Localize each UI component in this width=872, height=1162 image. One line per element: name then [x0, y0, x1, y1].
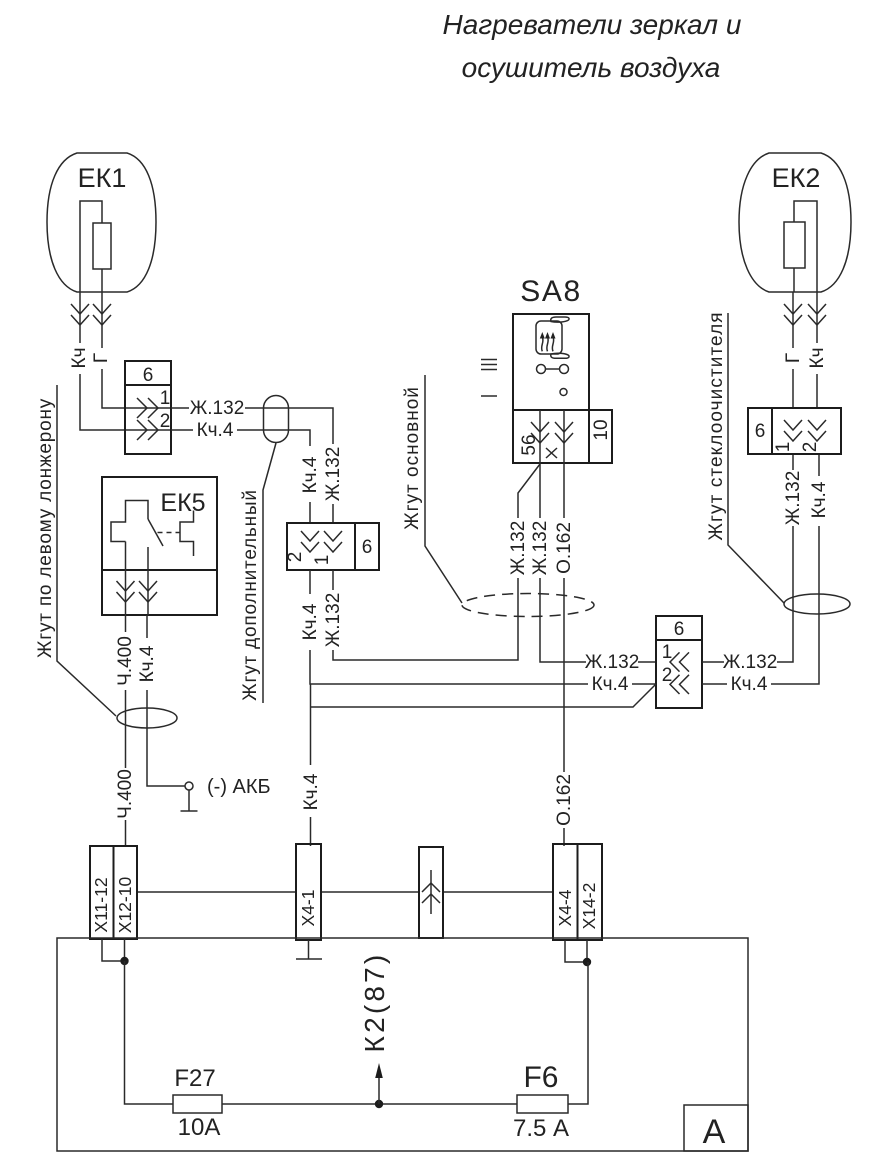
EK5 left pin wire	[125, 542, 127, 616]
wire label Кч.4 vertical (EK2 side)	[811, 476, 828, 526]
svg-text:Кч.4: Кч.4	[197, 420, 234, 441]
svg-text:осушитель воздуха: осушитель воздуха	[462, 52, 721, 83]
svg-text:56: 56	[519, 434, 540, 455]
svg-text:Ж.132: Ж.132	[783, 471, 804, 526]
SA8 pin X wire with chevrons	[563, 410, 565, 463]
wire label О.162	[556, 518, 573, 578]
svg-text:Ж.132: Ж.132	[190, 398, 245, 419]
pin chevrons on EK5 right wire	[139, 581, 157, 602]
pin 1 chevrons (left)	[670, 652, 689, 671]
svg-text:Ж.132: Ж.132	[508, 521, 529, 576]
title: Нагреватели зеркал и осушитель воздуха	[443, 9, 742, 83]
ground stub under X4-1	[296, 940, 322, 959]
wire: EK1 element bottom lead	[101, 269, 103, 292]
wire F6 up to junction	[568, 962, 588, 1104]
connector divider	[354, 523, 356, 570]
pin chevrons on EK5 left wire	[117, 581, 135, 602]
svg-text:Х14-2: Х14-2	[579, 883, 599, 930]
svg-text:6: 6	[674, 619, 685, 640]
svg-text:F6: F6	[523, 1061, 558, 1094]
svg-text:1: 1	[662, 642, 673, 663]
bracket X4-4/X14-2 to junction	[565, 940, 587, 962]
branch wire from pin 2 down to frame	[311, 684, 657, 846]
svg-text:Кч.4: Кч.4	[731, 674, 768, 695]
connector cell divider	[125, 384, 171, 386]
wire label Ч.400	[117, 632, 134, 690]
wire Кч.4 from EK5 to battery minus	[147, 615, 185, 786]
wire: EK2 element bottom lead	[793, 268, 795, 292]
wire label Кч.4 near X4-1	[303, 765, 320, 817]
wire Ж.132 from SA8 pin down to EK2 branch	[540, 464, 656, 662]
junction dot right	[583, 958, 591, 966]
wire: EK1 right lead down	[102, 292, 171, 408]
pin chevrons on EK2 wire 793	[784, 420, 802, 441]
heating element R of EK2	[784, 222, 805, 268]
heat wave arrows	[542, 337, 554, 351]
pin chevrons on wire 333	[324, 531, 342, 552]
svg-text:10А: 10А	[178, 1114, 221, 1141]
air dryer heater EK5 body	[102, 477, 217, 615]
splice chevrons on EK2 left wire	[784, 304, 802, 325]
position I mark	[481, 395, 497, 397]
intermediate connector (6 pin) to wiper harness	[656, 616, 702, 708]
pin chevrons on wire 310	[301, 531, 319, 552]
wire label Ж.132 on horizontal run	[586, 652, 638, 671]
splice chevrons on EK1 left wire	[71, 304, 89, 325]
svg-text:(-) АКБ: (-) АКБ	[207, 776, 271, 798]
wire colour label Ж.132 (above middle connector)	[325, 444, 342, 504]
svg-text:2: 2	[285, 552, 306, 563]
heater element symbol	[111, 501, 148, 542]
svg-text:Ч.400: Ч.400	[115, 636, 136, 686]
frame bus wire	[137, 891, 553, 893]
main harness dashed oval	[462, 594, 594, 617]
splice chevrons on EK2 right wire	[808, 304, 826, 325]
pin 2 chevrons	[137, 420, 158, 440]
svg-text:ЕК2: ЕК2	[772, 163, 821, 193]
wire colour label Кч.4 (above middle connector)	[302, 446, 319, 502]
svg-text:1: 1	[160, 388, 171, 409]
wire label Ч.400 (second)	[117, 768, 134, 820]
svg-text:Ж.132: Ж.132	[585, 652, 640, 673]
junction dot left	[120, 957, 128, 965]
connector of SA8 (10 pin)	[513, 410, 612, 463]
svg-text:Кч: Кч	[69, 348, 90, 369]
wire label Кч.4	[139, 638, 156, 690]
svg-text:Жгут основной: Жгут основной	[402, 386, 423, 530]
wire Ж.132 down from middle connector to SA8 branch	[333, 464, 540, 660]
label Кч.4 on horizontal run to connector pin 2	[588, 674, 632, 693]
mirror housing bracket bottom	[551, 353, 569, 358]
connector X (6 pin) of EK2	[748, 408, 841, 454]
wire down to F27	[125, 961, 174, 1104]
wire label Ж.132	[189, 398, 245, 417]
svg-text:2: 2	[160, 411, 171, 432]
thermal link dashed	[158, 532, 181, 534]
wire: EK2 element top to right lead	[794, 201, 817, 292]
bus junction connector with chevrons	[419, 847, 443, 938]
battery minus terminal	[185, 782, 193, 790]
svg-text:Жгут по левому лонжерону: Жгут по левому лонжерону	[35, 398, 56, 658]
connector divider	[656, 639, 702, 641]
wire label Ж.132 (left SA8 wire)	[510, 518, 527, 578]
wire: EK2 left lead down to connector	[792, 292, 794, 408]
svg-text:Ж.132: Ж.132	[723, 652, 778, 673]
thermostat contour	[180, 511, 194, 557]
heated mirror icon frame	[536, 321, 562, 354]
wire Кч.4 from EK1 pin 2	[171, 430, 310, 523]
leader line to Жгут стеклоочистителя	[728, 313, 784, 603]
svg-text:Кч.4: Кч.4	[300, 456, 321, 493]
wire label Ж.132 vertical (EK2 side)	[785, 470, 802, 526]
svg-text:К2(87): К2(87)	[359, 952, 390, 1053]
thermal switch blade	[148, 519, 163, 546]
splice chevrons on EK1 right wire	[93, 304, 111, 325]
connector X4-4 / X14-2	[553, 844, 602, 940]
connector X (6 pin) of EK1	[125, 361, 171, 454]
wire Ч.400 from EK5 to X12-10	[125, 615, 127, 846]
wire label Кч.4	[727, 674, 771, 693]
svg-text:Ж.132: Ж.132	[530, 521, 551, 576]
svg-text:SA8: SA8	[520, 275, 582, 308]
wire Ж.132 right of connector to EK2	[702, 454, 793, 662]
fuse F6	[517, 1095, 568, 1113]
wire label Ж.132	[724, 652, 777, 671]
svg-text:Х4-1: Х4-1	[298, 890, 318, 927]
svg-text:О.162: О.162	[554, 774, 575, 826]
svg-text:Кч.4: Кч.4	[300, 603, 321, 640]
svg-text:2: 2	[800, 442, 821, 453]
wire colour label Кч (EK1 left)	[71, 343, 88, 374]
svg-text:Г: Г	[783, 353, 804, 363]
wire label Ж.132	[325, 590, 342, 650]
svg-text:Кч: Кч	[807, 348, 828, 369]
svg-text:Кч.4: Кч.4	[137, 645, 158, 682]
svg-text:6: 6	[362, 537, 373, 558]
svg-text:1: 1	[312, 555, 333, 566]
svg-text:Кч.4: Кч.4	[301, 773, 322, 810]
connector X4-1	[296, 844, 321, 940]
fuse F27	[173, 1095, 222, 1113]
EK5 divider	[102, 569, 217, 571]
switch contact circle right	[560, 365, 569, 374]
left frame harness oval	[117, 708, 177, 728]
mirror housing bracket top	[551, 317, 569, 322]
leader line to Жгут по левому лонжерону	[57, 385, 116, 716]
svg-text:О.162: О.162	[554, 522, 575, 574]
EK5 right pin wire	[147, 547, 149, 615]
svg-text:Г: Г	[91, 353, 112, 363]
wire: EK2 right lead down to connector	[816, 292, 818, 408]
pin 2 chevrons (left)	[670, 675, 689, 694]
svg-text:А: А	[703, 1113, 726, 1151]
svg-text:6: 6	[755, 421, 766, 442]
switch contact circle left	[537, 365, 546, 374]
svg-text:Х4-4: Х4-4	[555, 889, 575, 926]
wire F27 to junction	[222, 1103, 517, 1105]
svg-text:ЕК1: ЕК1	[78, 163, 127, 193]
wire: EK1 element top to left lead	[80, 201, 102, 292]
connector divider	[588, 410, 590, 463]
svg-text:Нагреватели зеркал и: Нагреватели зеркал и	[443, 9, 742, 40]
svg-text:7.5 А: 7.5 А	[513, 1115, 569, 1142]
wire colour label Кч (EK2 right)	[809, 343, 826, 374]
svg-text:1: 1	[773, 442, 794, 453]
connector X11-12 / X12-10	[90, 846, 137, 939]
svg-text:Ж.132: Ж.132	[323, 593, 344, 648]
contact bridge	[546, 368, 560, 370]
pin X label	[546, 448, 557, 458]
SA8 pin 56 wire with chevrons	[539, 410, 541, 464]
svg-text:Жгут дополнительный: Жгут дополнительный	[240, 489, 261, 701]
wire Кч.4 down from middle connector	[310, 570, 656, 684]
bracket X11-12/X12-10 to junction	[102, 939, 125, 961]
pin 1 chevrons	[137, 398, 158, 418]
wiper harness oval	[784, 594, 850, 614]
wire label Кч.4	[193, 420, 237, 439]
wire: EK1 left lead down	[80, 292, 171, 430]
switch SA8 body	[513, 314, 589, 410]
harness oval (between EK1 and add. harness)	[264, 396, 289, 443]
svg-text:10: 10	[591, 419, 612, 440]
wire colour label Г (EK2 left)	[786, 348, 801, 369]
device letter box A	[684, 1105, 748, 1151]
svg-text:6: 6	[143, 365, 154, 386]
wire label О.162 (second)	[556, 772, 573, 828]
pin chevrons on EK2 wire 817	[808, 420, 826, 441]
position II mark	[481, 360, 497, 370]
wire label Кч.4	[302, 594, 319, 650]
svg-text:F27: F27	[174, 1065, 215, 1092]
additional harness connector (6 pin, horizontal)	[287, 523, 379, 570]
leader line to Жгут дополнительный	[263, 443, 276, 703]
connector divider	[771, 408, 773, 454]
svg-text:Ч.400: Ч.400	[115, 769, 136, 819]
wire colour label Г (EK1 right)	[94, 348, 109, 369]
single contact circle	[560, 389, 567, 396]
wire label Ж.132 (mid SA8 wire)	[532, 518, 549, 578]
wire Ж.132 from EK1 pin 1 to harness node	[171, 408, 333, 523]
leader line to Жгут основной	[425, 375, 462, 603]
svg-text:Кч.4: Кч.4	[592, 674, 629, 695]
heating element R of EK1	[93, 223, 111, 269]
wire Кч.4 right of connector to EK2	[702, 454, 819, 684]
relay contact arrow K2(87)	[375, 1100, 383, 1108]
wire О.162 from SA8 pin X down	[563, 463, 565, 846]
mirror heater EK1 (oval housing)	[47, 153, 156, 292]
mirror heater EK2 (oval housing)	[739, 153, 851, 292]
svg-text:Ж.132: Ж.132	[323, 447, 344, 502]
device A enclosure	[57, 938, 748, 1151]
svg-text:Х12-10: Х12-10	[115, 877, 135, 934]
svg-text:Х11-12: Х11-12	[91, 877, 111, 932]
svg-text:Жгут стеклоочистителя: Жгут стеклоочистителя	[706, 311, 727, 540]
svg-text:Кч.4: Кч.4	[809, 481, 830, 518]
svg-text:ЕК5: ЕК5	[160, 489, 205, 517]
